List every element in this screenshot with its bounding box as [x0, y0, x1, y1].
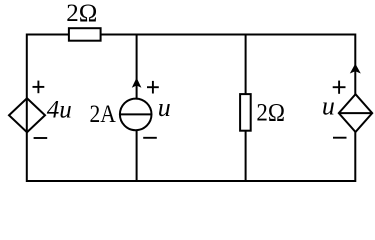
resistor R1 2 ohm (top horizontal) — [69, 28, 101, 41]
svg-text:u: u — [322, 92, 335, 121]
label + of right source — [333, 81, 346, 94]
svg-text:2Ω: 2Ω — [256, 100, 285, 127]
wire left branch (x=26.8, through dependent source) — [26, 34, 28, 183]
wire bottom (bottom node, y=181) — [27, 180, 356, 182]
arrow of current direction on right branch — [350, 64, 361, 74]
wire top (node between branches, y=34.5) — [27, 34, 356, 36]
label minus of right source — [333, 137, 347, 139]
wire middle branch of 2A source (x=136.6) — [136, 35, 138, 99]
current source internal bar — [120, 113, 152, 115]
internal bar of right diamond source — [339, 112, 372, 114]
resistor R2 2 ohm (vertical) — [240, 94, 251, 131]
controlled source u (diamond, right branch) — [339, 94, 372, 132]
controlled voltage source 4u (diamond, left branch) — [9, 98, 45, 132]
svg-text:2Ω: 2Ω — [66, 0, 97, 27]
label + of u across 2A source — [147, 81, 159, 94]
svg-text:2A: 2A — [90, 101, 116, 128]
arrow of current direction on 2A branch — [132, 78, 142, 88]
wire branch of vertical 2 ohm resistor (x=245.6) — [245, 35, 247, 96]
current source 2A (circle) — [120, 99, 152, 131]
svg-text:4u: 4u — [47, 97, 72, 124]
label minus of 4u source — [34, 137, 48, 139]
label + of 4u source — [33, 81, 45, 94]
label minus of u across 2A source — [143, 137, 157, 139]
svg-text:u: u — [158, 93, 171, 122]
wire right branch (x=355.3, dependent source u) — [354, 34, 356, 96]
